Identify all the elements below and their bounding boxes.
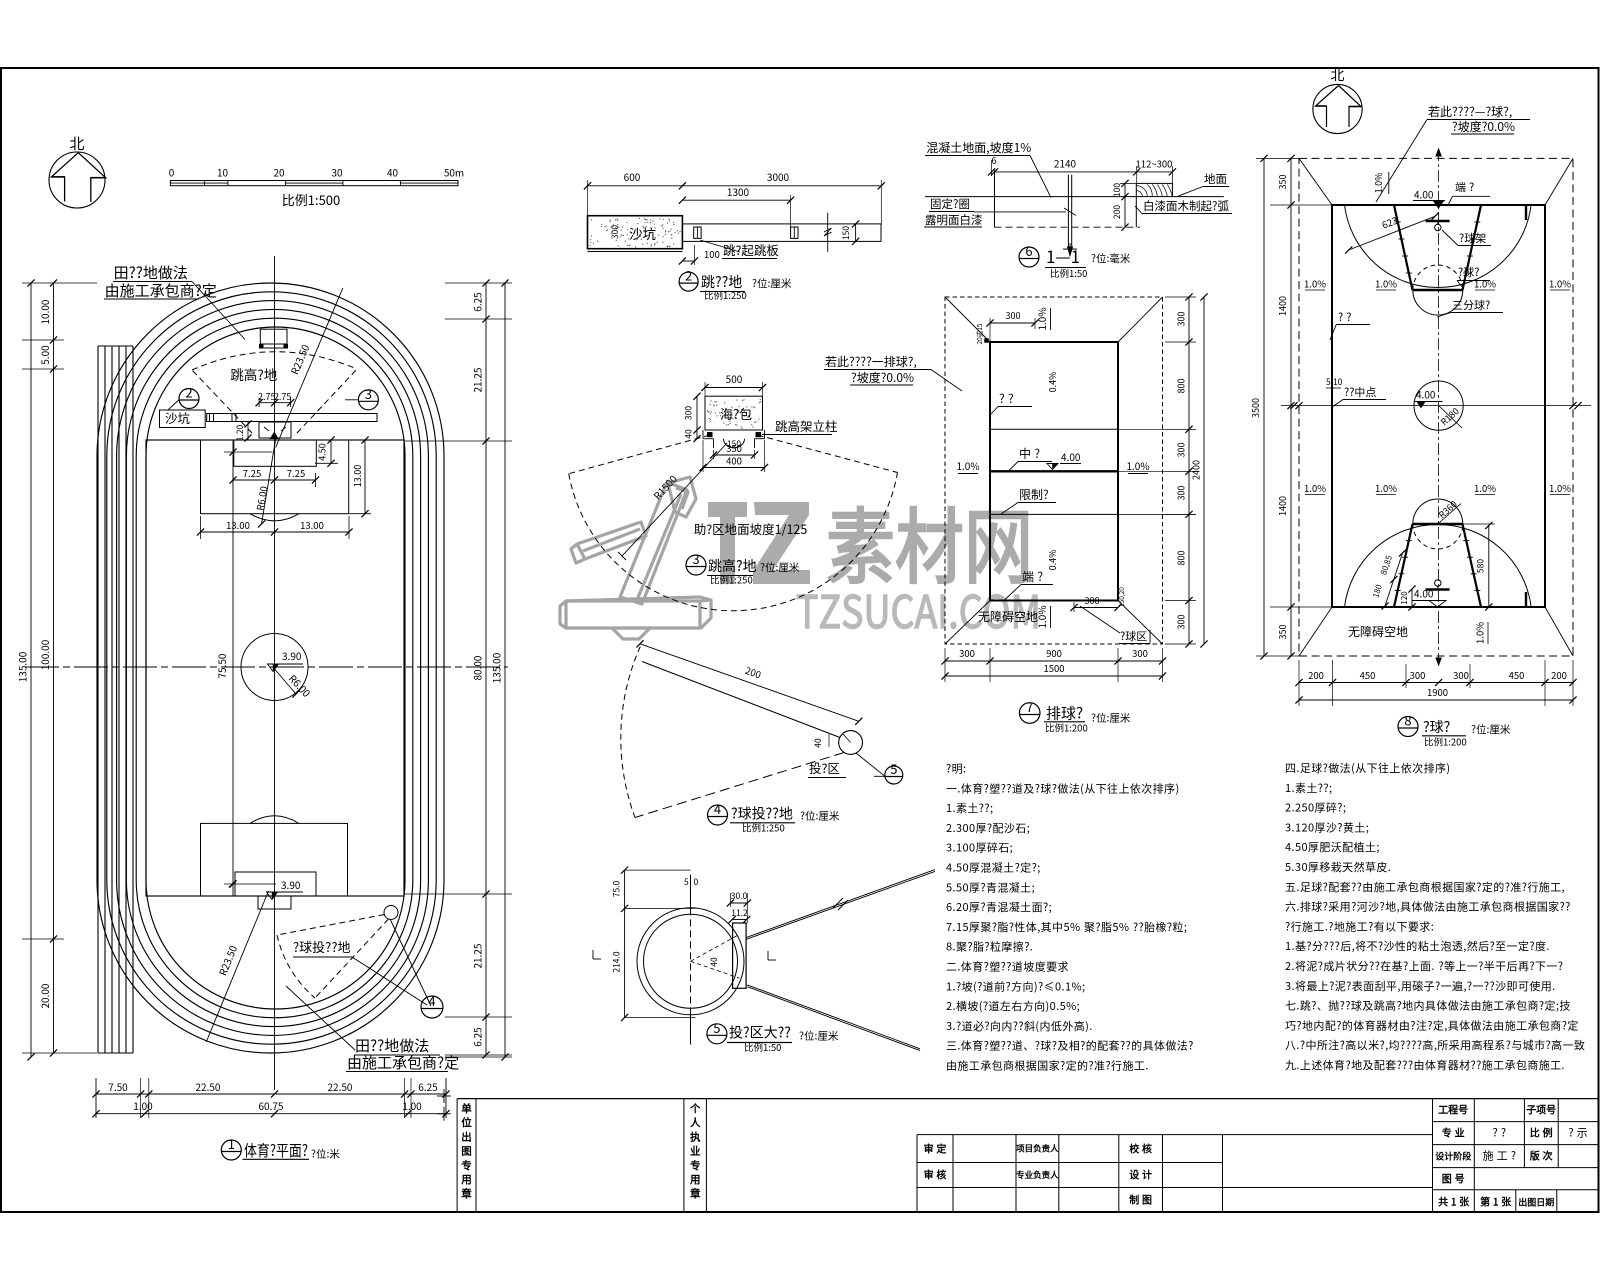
svg-text:300: 300: [1453, 668, 1469, 682]
svg-text:三分球?: 三分球?: [1452, 297, 1490, 313]
svg-text:露明面白漆: 露明面白漆: [925, 212, 983, 228]
svg-text:580: 580: [1475, 559, 1487, 573]
svg-text:100: 100: [1111, 183, 1123, 197]
svg-text:巧?地内配?的体育器材由?注?定,具体做法由施工承包商?定: 巧?地内配?的体育器材由?注?定,具体做法由施工承包商?定: [1285, 1017, 1579, 1033]
svg-text:个: 个: [689, 1101, 701, 1116]
svg-text:专: 专: [461, 1158, 472, 1173]
svg-text:2.250厚碎?;: 2.250厚碎?;: [1285, 800, 1346, 816]
svg-text:第 1 张: 第 1 张: [1480, 1194, 1512, 1209]
svg-text:1300: 1300: [727, 184, 750, 199]
svg-text:600: 600: [624, 169, 641, 184]
svg-text:300: 300: [1175, 486, 1188, 501]
svg-text:0.4%: 0.4%: [1046, 372, 1059, 393]
svg-text:500: 500: [726, 371, 743, 386]
svg-text:端 ?: 端 ?: [1455, 179, 1474, 195]
svg-text:子项号: 子项号: [1526, 1102, 1556, 1117]
svg-text:13.00: 13.00: [300, 518, 324, 532]
svg-text:?行施工.?地施工?有以下要求:: ?行施工.?地施工?有以下要求:: [1285, 918, 1434, 934]
svg-text:限制?: 限制?: [1019, 486, 1049, 503]
svg-text:11.2: 11.2: [731, 907, 748, 919]
svg-text:200: 200: [1551, 668, 1567, 682]
svg-text:2: 2: [685, 266, 692, 285]
svg-text:214.0: 214.0: [611, 951, 623, 973]
svg-text:一.体育?塑??道及?球?做法(从下往上依次排序): 一.体育?塑??道及?球?做法(从下往上依次排序): [946, 780, 1180, 796]
svg-text:4.00: 4.00: [1416, 387, 1436, 402]
svg-text:1.基?分???后,将不?沙性的粘土泡透,然后?至一定?度.: 1.基?分???后,将不?沙性的粘土泡透,然后?至一定?度.: [1285, 938, 1550, 954]
svg-text:北: 北: [1331, 65, 1345, 85]
svg-text:?球架: ?球架: [1459, 230, 1486, 246]
svg-text:由施工承包商?定: 由施工承包商?定: [347, 1052, 459, 1073]
svg-text:6.20厚?青混凝土面?;: 6.20厚?青混凝土面?;: [946, 899, 1052, 915]
svg-text:30: 30: [331, 165, 343, 180]
svg-text:100: 100: [704, 247, 720, 261]
svg-text:? ?: ? ?: [999, 390, 1014, 407]
svg-text:校 核: 校 核: [1129, 1141, 1152, 1156]
svg-text:1.素土??;: 1.素土??;: [1285, 780, 1332, 796]
svg-text:350: 350: [1276, 625, 1289, 640]
svg-text:50m: 50m: [444, 165, 464, 180]
svg-text:135.00: 135.00: [489, 652, 504, 683]
svg-text:8: 8: [1404, 711, 1411, 730]
svg-text:跳高?地: 跳高?地: [230, 364, 277, 384]
svg-text:300: 300: [1175, 615, 1188, 630]
svg-text:北: 北: [69, 133, 84, 154]
svg-text:200: 200: [1308, 668, 1324, 682]
svg-text:1.0%: 1.0%: [1375, 481, 1397, 495]
svg-text:300: 300: [1085, 594, 1100, 607]
svg-text:1.0%: 1.0%: [1473, 622, 1487, 644]
svg-text:比例1:500: 比例1:500: [282, 190, 340, 209]
svg-text:4: 4: [428, 991, 435, 1010]
svg-text:5,10: 5,10: [1326, 376, 1343, 388]
svg-text:1900: 1900: [1427, 685, 1448, 699]
svg-text:1.0%: 1.0%: [1474, 277, 1496, 291]
svg-text:2.75: 2.75: [258, 390, 276, 403]
svg-text:跳高架立柱: 跳高架立柱: [775, 416, 838, 435]
svg-text:5: 5: [890, 759, 897, 778]
svg-text:设 计: 设 计: [1129, 1167, 1152, 1182]
svg-text:无障碍空地: 无障碍空地: [1348, 623, 1408, 640]
svg-text:图: 图: [461, 1144, 472, 1159]
svg-text:1.0%: 1.0%: [1375, 277, 1397, 291]
svg-text:?球区: ?球区: [1120, 628, 1147, 644]
svg-text:1: 1: [228, 1134, 235, 1153]
svg-text:跳?起跳板: 跳?起跳板: [723, 240, 779, 259]
svg-text:3.100厚碎石;: 3.100厚碎石;: [946, 840, 1013, 856]
svg-text:4.00: 4.00: [1414, 187, 1434, 202]
svg-text:800: 800: [1175, 379, 1188, 394]
svg-text:1.?坡(?道前?方向)?≤0.1%;: 1.?坡(?道前?方向)?≤0.1%;: [946, 978, 1086, 994]
svg-text:2.75: 2.75: [274, 390, 292, 403]
svg-text:比例1:250: 比例1:250: [704, 288, 747, 302]
svg-text:1400: 1400: [1276, 496, 1289, 516]
svg-text:120: 120: [1399, 591, 1410, 605]
svg-text:300: 300: [1410, 668, 1426, 682]
svg-text:4: 4: [714, 799, 721, 818]
svg-text:20或15: 20或15: [974, 323, 984, 344]
svg-text:?位:厘米: ?位:厘米: [800, 809, 840, 824]
svg-text:13.00: 13.00: [351, 465, 364, 487]
svg-text:0.4%: 0.4%: [1046, 550, 1059, 571]
svg-text:?位:厘米: ?位:厘米: [1471, 722, 1511, 737]
svg-text:2.300厚?配沙石;: 2.300厚?配沙石;: [946, 820, 1030, 836]
svg-text:比例1:200: 比例1:200: [1424, 735, 1467, 749]
svg-text:共 1 张: 共 1 张: [1438, 1194, 1470, 1209]
svg-text:?明:: ?明:: [946, 761, 966, 777]
svg-text:5: 5: [684, 876, 689, 888]
svg-text:投?区: 投?区: [809, 758, 840, 777]
svg-text:2140: 2140: [1054, 156, 1077, 171]
svg-text:22.50: 22.50: [328, 1079, 353, 1094]
svg-text:?位:毫米: ?位:毫米: [1091, 251, 1131, 266]
svg-text:沙坑: 沙坑: [165, 408, 191, 427]
svg-text:150: 150: [840, 226, 852, 240]
svg-text:1—1: 1—1: [1046, 243, 1080, 268]
svg-text:5.30厚移栽天然草皮.: 5.30厚移栽天然草皮.: [1285, 859, 1391, 875]
svg-text:3000: 3000: [767, 169, 790, 184]
svg-text:??中点: ??中点: [1344, 384, 1376, 400]
svg-text:300: 300: [1175, 443, 1188, 458]
svg-text:20.00: 20.00: [37, 983, 52, 1008]
svg-text:1.0%: 1.0%: [1126, 458, 1149, 473]
svg-text:二.体育?塑??道坡度要求: 二.体育?塑??道坡度要求: [946, 959, 1069, 975]
svg-text:450: 450: [1360, 668, 1376, 682]
svg-text:执: 执: [690, 1129, 701, 1144]
svg-text:400: 400: [726, 454, 742, 468]
svg-text:版 次: 版 次: [1530, 1148, 1553, 1163]
svg-text:5.50厚?青混凝土;: 5.50厚?青混凝土;: [946, 879, 1035, 895]
svg-text:章: 章: [461, 1186, 472, 1201]
svg-text:1.0%: 1.0%: [1474, 481, 1496, 495]
svg-text:3.120厚沙?黄土;: 3.120厚沙?黄土;: [1285, 819, 1369, 835]
svg-text:13.00: 13.00: [226, 518, 250, 532]
svg-text:? 示: ? 示: [1568, 1125, 1587, 1141]
svg-text:业: 业: [690, 1144, 701, 1159]
svg-text:专 业: 专 业: [1442, 1125, 1465, 1140]
svg-text:300: 300: [1006, 309, 1021, 322]
svg-text:1.0%: 1.0%: [1372, 173, 1385, 194]
svg-text:21.25: 21.25: [470, 943, 485, 968]
svg-text:20: 20: [273, 165, 285, 180]
svg-text:由施工承包商根据国家?定的?准?行施工.: 由施工承包商根据国家?定的?准?行施工.: [946, 1058, 1149, 1074]
svg-text:100.00: 100.00: [37, 639, 52, 670]
svg-text:专业负责人: 专业负责人: [1016, 1169, 1059, 1181]
svg-text:4.00: 4.00: [1061, 449, 1081, 464]
svg-text:350: 350: [1276, 175, 1289, 190]
svg-text:10.00: 10.00: [37, 299, 52, 324]
svg-text:7: 7: [1026, 697, 1033, 716]
svg-text:?位:厘米: ?位:厘米: [760, 560, 800, 575]
svg-text:审 核: 审 核: [924, 1167, 947, 1182]
svg-text:4.50厚混凝土?定?;: 4.50厚混凝土?定?;: [946, 860, 1041, 876]
svg-text:22.50: 22.50: [196, 1079, 221, 1094]
svg-text:1.0%: 1.0%: [1034, 307, 1049, 330]
svg-text:1.00: 1.00: [402, 1098, 422, 1113]
svg-text:审 定: 审 定: [924, 1141, 947, 1156]
svg-text:固定?圈: 固定?圈: [930, 196, 970, 212]
svg-text:0: 0: [169, 165, 175, 180]
svg-text:比例1:50: 比例1:50: [744, 1040, 781, 1054]
svg-text:设计阶段: 设计阶段: [1435, 1150, 1472, 1163]
svg-text:75.0: 75.0: [611, 880, 623, 897]
svg-text:若此????一排球?,: 若此????一排球?,: [825, 353, 917, 370]
svg-text:1.0%: 1.0%: [956, 458, 979, 473]
svg-text:比例1:250: 比例1:250: [710, 573, 753, 587]
svg-text:1.0%: 1.0%: [1304, 277, 1326, 291]
svg-text:用: 用: [460, 1172, 472, 1187]
svg-text:六.排球?采用?河沙?地,具体做法由施工承包商根据国家??: 六.排球?采用?河沙?地,具体做法由施工承包商根据国家??: [1285, 899, 1571, 915]
svg-text:7.15厚聚?脂?性体,其中5% 聚?脂5% ??胎橡?粒;: 7.15厚聚?脂?性体,其中5% 聚?脂5% ??胎橡?粒;: [946, 919, 1187, 935]
svg-text:海?包: 海?包: [720, 404, 752, 423]
svg-text:1.0%: 1.0%: [1304, 481, 1326, 495]
svg-text:3.90: 3.90: [281, 877, 301, 892]
svg-text:人: 人: [690, 1115, 701, 1130]
svg-text:三.体育?塑??道、?球?及相?的配套??的具体做法?: 三.体育?塑??道、?球?及相?的配套??的具体做法?: [946, 1038, 1194, 1054]
svg-text:21.25: 21.25: [470, 367, 485, 392]
svg-text:3.将最上?泥?表面刮平,用磙子?一遍,?一??沙即可使用.: 3.将最上?泥?表面刮平,用磙子?一遍,?一??沙即可使用.: [1285, 978, 1556, 994]
svg-text:位: 位: [461, 1115, 472, 1130]
svg-text:用: 用: [689, 1172, 701, 1187]
svg-text:?位:厘米: ?位:厘米: [1091, 711, 1131, 726]
svg-text:出: 出: [461, 1129, 472, 1144]
svg-text:沙坑: 沙坑: [629, 223, 656, 243]
svg-text:施 工 ?: 施 工 ?: [1483, 1148, 1516, 1164]
svg-text:体育?平面?: 体育?平面?: [244, 1139, 308, 1161]
svg-text:40: 40: [812, 738, 824, 748]
svg-text:工程号: 工程号: [1438, 1102, 1468, 1117]
svg-text:八.?中所注?高以米?,均????高,所采用高程系?与城市?: 八.?中所注?高以米?,均????高,所采用高程系?与城市?高一致: [1285, 1037, 1585, 1053]
svg-text:450: 450: [1509, 668, 1525, 682]
svg-text:?球投??地: ?球投??地: [293, 937, 351, 956]
svg-text:混凝土地面,坡度1%: 混凝土地面,坡度1%: [926, 139, 1031, 156]
svg-text:出图日期: 出图日期: [1518, 1196, 1554, 1209]
svg-text:?位:米: ?位:米: [311, 1147, 340, 1162]
svg-text:?位:厘米: ?位:厘米: [752, 276, 792, 291]
svg-text:6.25: 6.25: [470, 292, 485, 312]
svg-text:? ?: ? ?: [1338, 309, 1351, 325]
svg-text:2.将泥?成片状分??在基?上面. ?等上一?半干后再?下一: 2.将泥?成片状分??在基?上面. ?等上一?半干后再?下一?: [1285, 958, 1563, 974]
svg-text:七.跳?、抛??球及跳高?地内具体做法由施工承包商?定;技: 七.跳?、抛??球及跳高?地内具体做法由施工承包商?定;技: [1285, 998, 1571, 1014]
svg-text:112~300: 112~300: [1136, 157, 1173, 171]
svg-text:1.0%: 1.0%: [1549, 481, 1571, 495]
svg-text:章: 章: [690, 1186, 701, 1201]
svg-text:中 ?: 中 ?: [1019, 445, 1040, 462]
svg-text:75.50: 75.50: [214, 653, 229, 678]
svg-text:0: 0: [694, 876, 699, 888]
svg-text:40: 40: [683, 429, 695, 439]
svg-text:2: 2: [185, 383, 192, 402]
svg-text:3.90: 3.90: [282, 648, 302, 663]
svg-text:200: 200: [1111, 205, 1123, 219]
svg-text:8.聚?脂?粒摩擦?.: 8.聚?脂?粒摩擦?.: [946, 939, 1033, 955]
svg-text:比例1:50: 比例1:50: [1050, 266, 1087, 280]
svg-text:7.50: 7.50: [108, 1079, 128, 1094]
svg-text:30.0: 30.0: [731, 890, 748, 902]
svg-text:6.25: 6.25: [470, 1027, 485, 1047]
svg-text:九.上述体育?地及配套???由体育器材??施工承包商施工.: 九.上述体育?地及配套???由体育器材??施工承包商施工.: [1285, 1057, 1565, 1073]
svg-text:5: 5: [713, 1018, 720, 1037]
svg-text:比例1:200: 比例1:200: [1045, 721, 1088, 735]
svg-text:300: 300: [683, 406, 695, 420]
svg-text:? ?: ? ?: [1493, 1125, 1506, 1141]
svg-text:五.足球?配套??由施工承包商根据国家?定的?准?行施工,: 五.足球?配套??由施工承包商根据国家?定的?准?行施工,: [1285, 879, 1565, 895]
svg-text:1.00: 1.00: [133, 1098, 153, 1113]
svg-text:制 图: 制 图: [1129, 1192, 1152, 1207]
svg-text:900: 900: [1046, 646, 1062, 660]
svg-text:10: 10: [217, 165, 229, 180]
svg-text:1500: 1500: [1043, 661, 1064, 675]
svg-text:6: 6: [1025, 241, 1032, 260]
svg-text:135.00: 135.00: [15, 651, 30, 682]
svg-text:300: 300: [959, 646, 975, 660]
svg-text:2.横坡(?道左右方向)0.5%;: 2.横坡(?道左右方向)0.5%;: [946, 998, 1080, 1014]
svg-text:比 例: 比 例: [1530, 1125, 1553, 1140]
svg-text:6: 6: [992, 154, 997, 167]
svg-text:4.50: 4.50: [316, 443, 329, 461]
svg-text:比例1:250: 比例1:250: [742, 821, 785, 835]
svg-text:白漆面木制起?弧: 白漆面木制起?弧: [1143, 198, 1229, 214]
svg-text:1.0%: 1.0%: [1549, 277, 1571, 291]
svg-text:300: 300: [1175, 312, 1188, 327]
svg-text:1.素土??;: 1.素土??;: [946, 800, 993, 816]
svg-text:3500: 3500: [1249, 398, 1262, 418]
svg-text:7.25: 7.25: [287, 466, 305, 480]
svg-text:300: 300: [1132, 646, 1148, 660]
svg-text:图 号: 图 号: [1442, 1171, 1465, 1186]
svg-text:3.?道必?向内??斜(内低外高).: 3.?道必?向内??斜(内低外高).: [946, 1018, 1093, 1034]
svg-text:800: 800: [1175, 551, 1188, 566]
svg-text:2400: 2400: [1190, 460, 1203, 480]
svg-text:四.足球?做法(从下往上依次排序): 四.足球?做法(从下往上依次排序): [1285, 760, 1451, 776]
svg-text:3: 3: [692, 549, 699, 568]
svg-text:?坡度?0.0%: ?坡度?0.0%: [1452, 118, 1515, 135]
svg-text:助?区地面坡度1/125: 助?区地面坡度1/125: [694, 519, 808, 538]
svg-text:4.00: 4.00: [1414, 586, 1434, 601]
svg-text:?位:厘米: ?位:厘米: [799, 1029, 839, 1044]
svg-text:80.00: 80.00: [470, 655, 485, 680]
svg-text:3: 3: [365, 384, 372, 403]
svg-text:单: 单: [461, 1101, 472, 1116]
svg-text:300: 300: [609, 225, 621, 239]
svg-text:6.25: 6.25: [418, 1079, 438, 1094]
svg-text:项目负责人: 项目负责人: [1016, 1143, 1059, 1155]
svg-text:4.50厚肥沃配植土;: 4.50厚肥沃配植土;: [1285, 839, 1380, 855]
svg-text:60.75: 60.75: [259, 1098, 284, 1113]
svg-text:7.25: 7.25: [243, 466, 261, 480]
svg-text:无障碍空地: 无障碍空地: [978, 608, 1038, 625]
svg-text:?坡度?0.0%: ?坡度?0.0%: [851, 369, 914, 386]
svg-text:40: 40: [708, 957, 720, 967]
svg-text:1400: 1400: [1276, 296, 1289, 316]
svg-text:端 ?: 端 ?: [1022, 568, 1043, 585]
svg-text:5.00: 5.00: [37, 345, 52, 365]
svg-text:专: 专: [690, 1158, 701, 1173]
svg-text:地面: 地面: [1204, 171, 1227, 187]
svg-text:40: 40: [387, 165, 399, 180]
